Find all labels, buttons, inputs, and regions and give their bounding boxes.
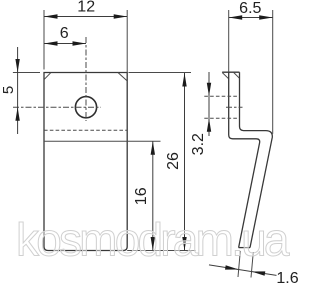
side view leg bottom edge xyxy=(239,247,250,249)
bend corner chamfer top-right xyxy=(118,73,127,81)
extension line top edge left xyxy=(13,72,40,74)
svg-text:5: 5 xyxy=(0,86,17,94)
dimension 1.6 extension right xyxy=(251,252,253,278)
hole horizontal centerline xyxy=(13,106,101,108)
svg-text:12: 12 xyxy=(77,0,95,16)
hole vertical centerline xyxy=(85,37,87,121)
plate outline front view xyxy=(44,73,127,251)
dimension 5 line xyxy=(17,47,19,134)
dimension 6 line xyxy=(44,43,86,45)
extension line top edge right xyxy=(129,72,192,74)
dimension 1.6 line xyxy=(209,265,277,276)
bend corner chamfer top-left xyxy=(44,73,50,80)
side view outer contour (left edge, step bottom, leg left edge) xyxy=(229,72,260,247)
side view lip diagonal right xyxy=(234,73,240,79)
svg-text:16: 16 xyxy=(133,187,150,205)
svg-text:6.5: 6.5 xyxy=(239,0,261,17)
bend tangent line (solid) xyxy=(44,140,161,142)
side view lip diagonal left xyxy=(222,73,229,79)
dimension 6.5 extension right xyxy=(272,10,274,134)
hole hidden line top (side view) xyxy=(204,95,239,97)
svg-text:26: 26 xyxy=(165,152,182,170)
side view inner contour (right edge, step top, leg right edge) xyxy=(240,72,273,247)
hole xyxy=(75,97,96,118)
dimension 6.5 extension left / strip edge continuation xyxy=(228,10,230,72)
dimension 16 line xyxy=(152,141,154,250)
svg-text:1.6: 1.6 xyxy=(276,270,298,286)
dimension 26 line xyxy=(184,73,186,251)
hole hidden line bottom (side view) xyxy=(204,117,239,119)
svg-text:3.2: 3.2 xyxy=(190,133,207,155)
side view top edge xyxy=(222,71,239,73)
dimension 12 extension right xyxy=(126,10,128,73)
svg-text:kosmodram.ua: kosmodram.ua xyxy=(16,214,290,266)
dimension 12 extension left xyxy=(43,10,45,70)
dimension 6.5 line xyxy=(229,17,273,19)
dimension 1.6 extension left xyxy=(238,251,240,277)
svg-text:6: 6 xyxy=(60,25,69,42)
extension line bottom edge right xyxy=(127,250,195,252)
dimension 12 line xyxy=(44,16,127,18)
dimension 3.2 line xyxy=(208,72,210,136)
hidden bend line (dashed) xyxy=(44,129,127,131)
hole centerline (side view) xyxy=(226,106,243,108)
